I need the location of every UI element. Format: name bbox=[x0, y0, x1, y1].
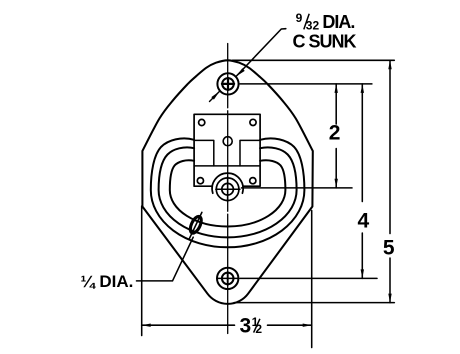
svg-text:9: 9 bbox=[296, 11, 303, 25]
bracket right slot bbox=[240, 140, 260, 166]
bracket left slot bbox=[194, 140, 214, 166]
svg-text:2: 2 bbox=[329, 121, 341, 144]
bracket screw hole bottom-left bbox=[197, 178, 203, 184]
dimension line 2 bbox=[335, 84, 337, 124]
extension line plate top bbox=[233, 59, 395, 61]
label 9/32 DIA. bbox=[296, 11, 355, 33]
leader line 9/32 bbox=[237, 29, 286, 76]
extension line plate right bbox=[311, 211, 313, 348]
svg-text:DIA.: DIA. bbox=[322, 12, 354, 32]
bottom countersunk hole bbox=[217, 268, 238, 289]
svg-text:5: 5 bbox=[383, 237, 395, 260]
svg-text:¼ DIA.: ¼ DIA. bbox=[81, 272, 134, 291]
bracket screw hole top-right bbox=[250, 119, 256, 125]
leader line 1/4 bbox=[137, 237, 194, 281]
dimension line 3-1/2 bbox=[142, 324, 235, 326]
top countersunk hole bbox=[217, 73, 238, 94]
bracket screw hole bottom-right bbox=[250, 178, 256, 184]
D-ring inner edge bbox=[170, 160, 286, 226]
svg-text:2: 2 bbox=[255, 322, 262, 336]
bracket center hole bbox=[223, 137, 232, 146]
plate outline bbox=[142, 60, 312, 304]
ring cross-section symbol bbox=[188, 215, 203, 235]
dimension line 5 bbox=[389, 60, 391, 233]
leader opposite arrow bbox=[210, 91, 220, 101]
dimension line 4 bbox=[361, 84, 363, 202]
svg-text:3: 3 bbox=[240, 315, 252, 338]
middle hole boss arc bbox=[212, 173, 243, 193]
extension line middle hole center bbox=[242, 187, 353, 189]
extension line top hole center bbox=[240, 83, 372, 85]
extension line plate bottom bbox=[234, 302, 394, 304]
svg-text:4: 4 bbox=[358, 210, 370, 233]
vertical centerline bbox=[227, 44, 229, 108]
extension line plate left bbox=[141, 206, 143, 336]
middle countersunk hole bbox=[216, 178, 239, 201]
svg-text:32: 32 bbox=[306, 19, 320, 33]
middle hole crosshair bbox=[216, 188, 240, 190]
D-ring outer edge bbox=[159, 147, 297, 237]
extension line bottom hole center bbox=[240, 277, 377, 279]
svg-text:C SUNK: C SUNK bbox=[293, 32, 357, 52]
bracket plate outline bbox=[194, 114, 260, 186]
top hole crosshair bbox=[222, 83, 234, 85]
bottom hole crosshair bbox=[217, 277, 239, 279]
recess edge bbox=[151, 138, 305, 247]
bracket screw hole top-left bbox=[199, 119, 205, 125]
bracket step line bbox=[194, 165, 260, 167]
